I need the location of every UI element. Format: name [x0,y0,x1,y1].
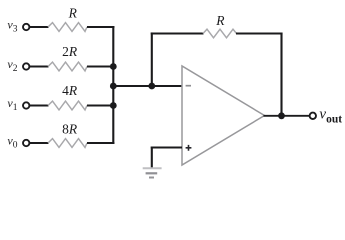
svg-text:vout: vout [319,106,342,125]
node feedback junction at inverting input [148,83,155,90]
bus vertical wire [112,26,114,144]
resistor R3 (4R) [48,101,87,110]
node summing junction on bus [110,83,117,90]
wire ground stem [151,147,153,168]
resistor R1 [48,23,87,32]
wire feedback top left [151,32,204,34]
wire bus to op-amp inverting input [113,85,182,87]
node junction v2-bus [110,63,117,70]
wire v2 terminal to R2 [30,66,49,68]
wire v1 terminal to R3 [30,105,49,107]
wire R1 to bus [87,26,114,28]
wire R2 to bus [87,65,114,67]
op-amp plus sign [186,145,192,151]
resistor R4 (8R) [48,139,87,148]
wire R4 to bus [87,142,114,144]
wire v3 terminal to R1 [30,26,49,28]
resistor R2 (2R) [48,62,87,71]
svg-text:v1: v1 [7,96,17,113]
terminal v0 [23,140,29,146]
wire feedback right vertical [280,32,282,115]
resistor Rf (feedback R) [203,29,237,38]
svg-text:v3: v3 [7,17,17,34]
ground [143,168,162,177]
svg-text:v0: v0 [7,133,17,150]
terminal v3 [23,24,29,30]
wire R3 to bus [87,104,114,106]
wire v0 terminal to R4 [30,142,49,144]
wire op-amp output [264,115,310,117]
node junction v1-bus [110,102,117,109]
node output junction [278,112,285,119]
wire feedback top right [236,32,283,34]
svg-text:2R: 2R [62,44,78,59]
terminal v1 [23,102,29,108]
svg-text:4R: 4R [62,83,78,98]
wire noninverting input [151,147,182,149]
wire feedback left vertical [151,32,153,86]
svg-text:R: R [68,5,78,20]
terminal vout [310,113,316,119]
svg-text:v2: v2 [7,57,17,74]
svg-text:8R: 8R [62,122,78,137]
op-amp minus sign [186,85,191,87]
svg-text:R: R [215,13,225,28]
op-amp U1 [182,66,265,165]
terminal v2 [23,63,29,69]
